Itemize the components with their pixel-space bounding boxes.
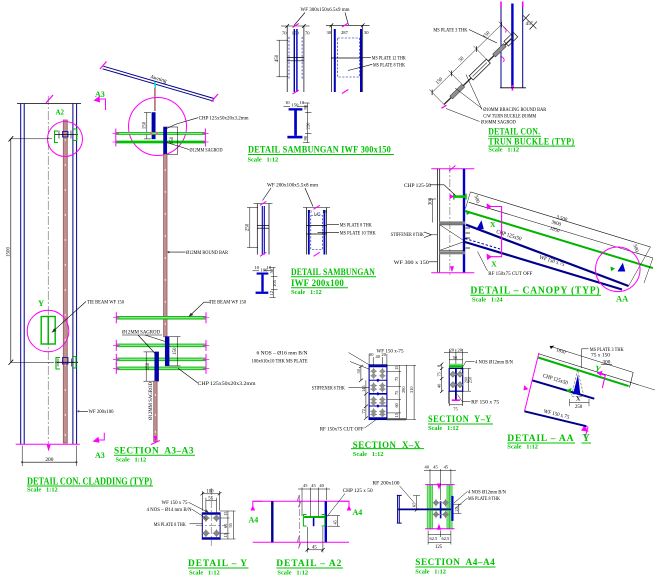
view1 splice lines bbox=[287, 56, 304, 58]
top dims bbox=[429, 469, 431, 484]
short dim 500 at left bbox=[466, 192, 471, 209]
leaders bbox=[294, 13, 305, 26]
bottom magenta beam line bbox=[253, 541, 349, 543]
svg-text:12: 12 bbox=[269, 290, 274, 295]
svg-text:150: 150 bbox=[173, 347, 178, 355]
svg-text:300: 300 bbox=[428, 197, 433, 205]
svg-text:SECTION A4–A4: SECTION A4–A4 bbox=[415, 557, 495, 568]
column left flange (double line) bbox=[20, 104, 22, 445]
GROUP D: detail sambungan IWF 200x100 bbox=[246, 182, 377, 297]
magenta frame bottom bbox=[525, 411, 589, 427]
left dim bracket bbox=[441, 364, 443, 392]
svg-text:Ø10MM BRACING ROUND BAR: Ø10MM BRACING ROUND BAR bbox=[483, 107, 546, 113]
svg-text:RF 150x75 CUT OFF: RF 150x75 CUT OFF bbox=[320, 427, 364, 433]
svg-text:DETAIL – CANOPY (TYP): DETAIL – CANOPY (TYP) bbox=[470, 285, 600, 296]
svg-text:Y: Y bbox=[583, 433, 591, 444]
marker A3 top arrow bbox=[98, 99, 106, 110]
leader chp bottom bbox=[178, 368, 198, 382]
svg-text:CHP 125 x 50: CHP 125 x 50 bbox=[343, 488, 373, 494]
tie beam channels (green) in circle bbox=[41, 317, 48, 345]
svg-text:90: 90 bbox=[303, 104, 308, 109]
CHP green member bbox=[454, 195, 467, 198]
svg-text:Scale 1:12: Scale 1:12 bbox=[428, 425, 459, 432]
purlin green line bbox=[465, 211, 653, 268]
dim extension lines bbox=[429, 22, 513, 105]
view2 outer lines bbox=[330, 25, 332, 92]
upper rod piece bbox=[493, 44, 507, 57]
svg-text:WF 300x150x6.5x9 mm: WF 300x150x6.5x9 mm bbox=[301, 7, 351, 13]
svg-text:CHP 125x50x20x3.2mm: CHP 125x50x20x3.2mm bbox=[198, 381, 257, 387]
svg-text:150: 150 bbox=[142, 121, 147, 129]
magenta break tick top bbox=[46, 95, 53, 103]
green arrowhead left bbox=[466, 210, 471, 215]
svg-text:STIFFENER 8 THK: STIFFENER 8 THK bbox=[312, 385, 345, 391]
svg-text:MS PLATE 8 THK: MS PLATE 8 THK bbox=[154, 522, 186, 528]
I-beam web horizontal bbox=[398, 508, 451, 510]
green arrowhead tip bbox=[610, 267, 615, 272]
view1 dim 250 bbox=[249, 208, 251, 248]
svg-text:Ø12MM ROUND BAR: Ø12MM ROUND BAR bbox=[186, 250, 228, 256]
beam web bbox=[455, 368, 457, 391]
svg-text:Scale 1:12: Scale 1:12 bbox=[116, 457, 147, 464]
dim 65 left bbox=[416, 496, 418, 511]
svg-text:WF 150 x 75: WF 150 x 75 bbox=[162, 500, 188, 506]
svg-text:Scale 1:12: Scale 1:12 bbox=[189, 569, 220, 576]
leader bbox=[190, 302, 211, 316]
svg-text:50: 50 bbox=[269, 268, 274, 273]
dim verticals bbox=[301, 488, 303, 517]
svg-text:72: 72 bbox=[361, 409, 366, 413]
I-beam bottom flange bbox=[256, 292, 269, 294]
svg-text:200: 200 bbox=[45, 457, 53, 463]
column bottom magenta line bbox=[16, 443, 80, 445]
GROUP I: detail AA bbox=[507, 346, 655, 451]
svg-text:62.5: 62.5 bbox=[442, 536, 450, 541]
svg-text:RF 150 x 75: RF 150 x 75 bbox=[471, 400, 499, 406]
bottom magenta line bbox=[431, 272, 474, 274]
dim 250 under gusset bbox=[570, 402, 590, 404]
svg-text:105: 105 bbox=[272, 279, 277, 287]
view1 magenta ticks bbox=[293, 24, 299, 28]
bolts bbox=[450, 372, 463, 388]
view1 splice lines bbox=[257, 225, 269, 227]
svg-text:TIE BEAM WF 150: TIE BEAM WF 150 bbox=[87, 300, 124, 306]
leader from plate labels bbox=[582, 349, 589, 368]
left column thick blue bbox=[271, 501, 273, 542]
column top edge line bbox=[17, 103, 81, 105]
dim 500 right end bbox=[629, 247, 653, 286]
right end extension bbox=[639, 385, 655, 390]
rafter bottom chord blue bbox=[465, 242, 622, 290]
rafter top chord blue bbox=[466, 225, 629, 286]
bottom dims bbox=[428, 534, 451, 536]
bottom stem bbox=[455, 391, 457, 399]
flange bands blue bbox=[369, 365, 387, 367]
right dims bbox=[270, 267, 276, 269]
svg-text:SECTION X–X: SECTION X–X bbox=[353, 440, 421, 451]
column right flange (double line) bbox=[72, 104, 74, 445]
leader CHP bbox=[167, 118, 198, 129]
turnbuckle body bbox=[469, 59, 490, 80]
svg-text:MS PLATE 3 THK: MS PLATE 3 THK bbox=[433, 27, 467, 33]
svg-text:X: X bbox=[490, 220, 496, 229]
circle Y bbox=[27, 310, 69, 352]
svg-text:125: 125 bbox=[435, 545, 443, 550]
svg-text:45°: 45° bbox=[526, 20, 533, 27]
dim ticks bbox=[429, 22, 504, 95]
tie beam girt line 3 bbox=[116, 358, 206, 360]
svg-text:DETAIL – Y: DETAIL – Y bbox=[188, 558, 248, 569]
svg-text:10: 10 bbox=[300, 100, 305, 105]
brace assembly (rotated group) bbox=[427, 19, 518, 108]
centerline bbox=[298, 496, 300, 548]
svg-text:A4: A4 bbox=[353, 508, 363, 517]
GROUP F: canopy detail bbox=[391, 165, 653, 304]
I-beam top flange bbox=[289, 108, 303, 110]
svg-text:100: 100 bbox=[206, 490, 214, 495]
bolt mark blue bbox=[63, 132, 69, 138]
view2 flange plates blue bbox=[334, 29, 336, 92]
cyan connector bbox=[154, 82, 157, 88]
green brackets bbox=[303, 515, 306, 527]
gusset plate at column bbox=[504, 32, 518, 46]
leader tie beam label bbox=[53, 302, 87, 332]
svg-text:Y: Y bbox=[38, 298, 44, 308]
break arcs magenta bbox=[504, 27, 507, 33]
sag rod T blue bbox=[313, 518, 315, 526]
leader round bar bbox=[168, 251, 186, 253]
plate top edge bbox=[538, 354, 639, 385]
gusset outline bbox=[572, 370, 585, 397]
GROUP K: detail A2 bbox=[249, 483, 373, 577]
view2 magenta ticks bbox=[342, 23, 348, 27]
bottom dim 45 bbox=[307, 549, 323, 551]
left marker hook bbox=[253, 501, 262, 506]
svg-text:Scale 1:12: Scale 1:12 bbox=[27, 487, 58, 494]
svg-text:DETAIL – A2: DETAIL – A2 bbox=[276, 558, 342, 569]
awning beam (double line) bbox=[103, 66, 214, 98]
svg-text:WF 200x100x5.5x8 mm: WF 200x100x5.5x8 mm bbox=[267, 182, 319, 188]
dim 100 bbox=[202, 493, 219, 495]
I-beam web bbox=[261, 275, 263, 292]
svg-text:C/W TURN BUCKLE Ø10MM: C/W TURN BUCKLE Ø10MM bbox=[483, 113, 536, 119]
svg-text:Ø16MM SAGROD: Ø16MM SAGROD bbox=[481, 120, 516, 126]
svg-text:90: 90 bbox=[303, 135, 308, 140]
round bar (sag rod) bbox=[63, 120, 67, 443]
green bracket left bbox=[55, 131, 59, 143]
girt line lower bbox=[116, 141, 206, 144]
top dim line bbox=[444, 352, 468, 354]
view2 top dim bbox=[303, 207, 330, 209]
svg-text:70: 70 bbox=[305, 31, 310, 36]
column centerline bbox=[47, 96, 49, 444]
tie beam girt line 2 bbox=[116, 344, 206, 346]
column lines bbox=[436, 169, 438, 273]
right end edge bbox=[630, 372, 634, 387]
circle A2 bbox=[48, 122, 83, 157]
brace rod line bbox=[444, 37, 513, 105]
column web thick bbox=[511, 4, 513, 89]
svg-text:WF 300 x 150: WF 300 x 150 bbox=[394, 260, 429, 266]
GROUP C: detail sambungan IWF 300x150 bbox=[248, 7, 406, 164]
column centerline bbox=[449, 165, 451, 276]
svg-text:150: 150 bbox=[146, 362, 151, 370]
awning end ticks magenta bbox=[100, 62, 107, 70]
leaders to channels bbox=[138, 335, 157, 355]
svg-text:DETAIL SAMBUNGAN IWF 300x150: DETAIL SAMBUNGAN IWF 300x150 bbox=[248, 145, 391, 156]
cut off leader bbox=[478, 252, 488, 272]
GROUP H: section Y-Y bbox=[428, 348, 513, 433]
bottom dim 75 bbox=[449, 404, 462, 406]
width dim 200 bbox=[22, 461, 76, 463]
svg-text:10: 10 bbox=[255, 265, 260, 270]
right dim 45 bbox=[327, 515, 340, 517]
view2 top dim line bbox=[326, 24, 370, 26]
view1 top dim bbox=[254, 203, 273, 205]
svg-text:CHP 125-50: CHP 125-50 bbox=[404, 183, 431, 189]
svg-text:75 x 150: 75 x 150 bbox=[591, 352, 610, 358]
top magenta line bbox=[431, 168, 474, 170]
right dims of I-beam bbox=[303, 102, 310, 104]
svg-text:30: 30 bbox=[364, 30, 369, 35]
magenta frame left bbox=[525, 353, 539, 411]
green bracket right bbox=[73, 129, 77, 141]
svg-text:MS PLATE 8 THK: MS PLATE 8 THK bbox=[468, 496, 500, 502]
left sag channel (blue) bbox=[155, 352, 159, 381]
girt flange pale horizontal bbox=[428, 508, 452, 511]
dim 55 bbox=[206, 499, 217, 501]
bottom magenta tick bbox=[151, 441, 160, 445]
svg-text:TIE BEAM WF 150: TIE BEAM WF 150 bbox=[209, 300, 246, 306]
plate rect bbox=[202, 513, 220, 539]
view2 magenta ticks bbox=[314, 205, 320, 209]
view2 dashed rect bbox=[311, 216, 323, 250]
marker A3 bottom arrow bbox=[97, 433, 104, 440]
green purlin line bbox=[538, 358, 628, 387]
top dim verticals bbox=[368, 354, 370, 365]
svg-text:4 NOS Ø12mm B/N: 4 NOS Ø12mm B/N bbox=[475, 359, 513, 365]
weld triangle at chord start bbox=[476, 220, 483, 229]
green bracket lower-left bbox=[56, 358, 60, 370]
svg-text:Scale 1:12: Scale 1:12 bbox=[507, 443, 538, 450]
view2 flange plates blue bbox=[308, 210, 310, 255]
rod stub below awning bbox=[154, 88, 156, 111]
top magenta beam line bbox=[253, 500, 349, 502]
svg-text:4 NOS Ø12mm B/N: 4 NOS Ø12mm B/N bbox=[468, 489, 506, 495]
bolts grid bbox=[371, 369, 385, 417]
I-beam bottom flange bbox=[287, 136, 302, 139]
svg-text:250: 250 bbox=[575, 405, 583, 410]
right dim lines bbox=[227, 511, 229, 539]
svg-text:MS PLATE 12 THK: MS PLATE 12 THK bbox=[372, 56, 406, 62]
svg-text:SECTION Y–Y: SECTION Y–Y bbox=[428, 414, 492, 425]
view1 outer lines bbox=[256, 204, 258, 255]
second hanger dim bbox=[177, 127, 179, 155]
view2 splice line bbox=[331, 57, 362, 59]
sagrod end piece bbox=[450, 84, 465, 99]
svg-text:Scale 1:24: Scale 1:24 bbox=[472, 297, 504, 304]
rafter hidden line dashed bbox=[465, 239, 500, 250]
svg-text:MS PLATE 8 THK: MS PLATE 8 THK bbox=[373, 62, 405, 68]
magenta bottom line bbox=[425, 528, 455, 530]
magenta base plate bbox=[452, 399, 460, 401]
svg-text:1500: 1500 bbox=[7, 247, 12, 258]
blue center marks bbox=[376, 379, 380, 408]
magenta tick at brace end bbox=[442, 105, 447, 108]
magenta arrow bottom bbox=[47, 445, 51, 452]
svg-text:250: 250 bbox=[468, 376, 473, 383]
I-beam top flange bbox=[257, 273, 269, 275]
svg-text:A3: A3 bbox=[95, 90, 105, 99]
GROUP J: detail Y bbox=[147, 488, 249, 576]
leaders from labels bbox=[349, 353, 373, 367]
dim line 2 bbox=[469, 202, 653, 258]
tie beam girt line 1 bbox=[116, 317, 206, 319]
svg-text:450: 450 bbox=[275, 54, 280, 62]
svg-text:Scale 1:12: Scale 1:12 bbox=[248, 157, 279, 164]
AA circle bbox=[596, 247, 641, 292]
svg-text:X: X bbox=[576, 397, 581, 403]
lower extension box bbox=[449, 391, 463, 403]
bolts bbox=[434, 500, 449, 517]
tie beam girt line 4 bbox=[116, 367, 206, 369]
right channel dim bracket bbox=[177, 337, 179, 366]
GROUP E: turn buckle detail bbox=[427, 2, 575, 154]
blue chord 2 bbox=[525, 411, 587, 426]
svg-text:Ø12MM SAGROD: Ø12MM SAGROD bbox=[190, 148, 223, 154]
svg-text:70: 70 bbox=[282, 31, 287, 36]
circle top connection bbox=[129, 98, 187, 156]
gusset triangles bbox=[440, 225, 465, 241]
gusset blue fill bbox=[573, 375, 580, 395]
svg-text:X: X bbox=[491, 260, 497, 269]
GROUP G: section X-X bbox=[252, 350, 425, 458]
bolt mark lower bbox=[63, 358, 69, 365]
svg-text:A3: A3 bbox=[95, 451, 105, 460]
weld triangle at tip bbox=[618, 263, 626, 272]
svg-text:A4: A4 bbox=[249, 516, 259, 525]
right marker hook bbox=[340, 501, 349, 506]
column web thick blue bbox=[463, 169, 465, 273]
view1 magenta ticks bbox=[260, 201, 266, 205]
right column thick blue bbox=[325, 501, 327, 542]
svg-text:150: 150 bbox=[292, 31, 300, 36]
bottom cut-off thick line bbox=[387, 418, 406, 420]
view2 outer lines bbox=[306, 208, 308, 255]
girt end ticks bbox=[116, 129, 206, 147]
beam box outline bbox=[449, 368, 463, 391]
dim 300 bbox=[432, 199, 434, 223]
I-beam web bbox=[294, 111, 297, 136]
svg-text:290: 290 bbox=[401, 386, 406, 393]
left dim lines bbox=[360, 366, 362, 380]
svg-text:MS PLATE 8 THK: MS PLATE 8 THK bbox=[340, 222, 372, 228]
leaders bbox=[263, 188, 272, 201]
connection line in circle bbox=[54, 134, 78, 136]
bolt dashes on column bbox=[466, 228, 471, 248]
plate rect bbox=[369, 365, 387, 420]
svg-text:45: 45 bbox=[312, 546, 317, 551]
dim line 1 (3500) bbox=[470, 192, 650, 247]
leader WF 200x100 bbox=[78, 410, 89, 412]
svg-text:Scale 1:12: Scale 1:12 bbox=[277, 569, 308, 576]
green arrow small bbox=[566, 388, 572, 394]
view2 dashed plate rect bbox=[338, 38, 360, 77]
centerlines bbox=[210, 488, 212, 546]
view1 web blue thick bbox=[293, 29, 295, 92]
svg-text:4 NOS – Ø14 mm B/N: 4 NOS – Ø14 mm B/N bbox=[147, 507, 192, 513]
dim line bbox=[432, 25, 501, 93]
second hanger channel (blue) bbox=[164, 127, 167, 155]
view1 450 dim bbox=[278, 40, 280, 77]
svg-text:62.5: 62.5 bbox=[430, 536, 438, 541]
svg-text:6 NOS – Ø16 mm B/N: 6 NOS – Ø16 mm B/N bbox=[257, 350, 308, 356]
svg-text:CHP 125x50x20x3.2mm: CHP 125x50x20x3.2mm bbox=[199, 116, 250, 122]
I-beam flange vertical bbox=[397, 495, 399, 523]
girt green line bbox=[304, 516, 325, 518]
45 degree note bbox=[523, 14, 537, 30]
open arrow bbox=[424, 232, 432, 238]
svg-text:287: 287 bbox=[341, 30, 349, 35]
column base line bbox=[500, 87, 526, 89]
gray beam stub upper bbox=[440, 221, 465, 224]
svg-text:150: 150 bbox=[170, 136, 175, 144]
svg-text:WF 200x100: WF 200x100 bbox=[89, 409, 114, 415]
section X bracket magenta bbox=[491, 207, 502, 257]
svg-text:30: 30 bbox=[327, 30, 332, 35]
svg-text:310: 310 bbox=[409, 386, 414, 393]
leaders bbox=[455, 75, 482, 110]
svg-text:Ø12MM SAGROD: Ø12MM SAGROD bbox=[148, 382, 154, 420]
magenta arrow at chp bbox=[450, 194, 455, 199]
view1 web lines bbox=[261, 206, 263, 255]
svg-text:250: 250 bbox=[246, 223, 251, 231]
green bracket lower-right bbox=[72, 357, 76, 369]
view1 top dim line bbox=[281, 25, 310, 27]
lower connection line bbox=[55, 361, 78, 363]
CHP hanger channel (blue) bbox=[152, 113, 155, 139]
svg-text:RF 150x75 CUT OFF: RF 150x75 CUT OFF bbox=[488, 271, 532, 277]
bolts bbox=[203, 515, 219, 536]
GROUP L: section A4-A4 bbox=[373, 464, 507, 575]
svg-text:Scale 1:12: Scale 1:12 bbox=[353, 451, 384, 458]
plate thick blue bbox=[451, 496, 453, 521]
svg-text:100x610x10 THK MS PLATE: 100x610x10 THK MS PLATE bbox=[252, 358, 308, 364]
right sag channel (blue) bbox=[165, 337, 169, 366]
right dim lines bbox=[398, 365, 400, 420]
svg-text:10: 10 bbox=[285, 100, 290, 105]
column flange lines bbox=[500, 4, 502, 89]
svg-text:Scale 1:12: Scale 1:12 bbox=[488, 147, 519, 154]
svg-text:AA: AA bbox=[616, 294, 629, 304]
dim 25 right bbox=[458, 504, 460, 513]
svg-text:STIFFENER 8 THK: STIFFENER 8 THK bbox=[391, 232, 424, 238]
GROUP B: center column / section A3-A3 bbox=[94, 62, 257, 464]
hanger dim 150 bbox=[146, 113, 148, 139]
GROUP A: left column detail bbox=[7, 95, 154, 494]
sag rod lower run bbox=[154, 381, 157, 442]
bolt line blue bbox=[440, 501, 442, 518]
right dim bracket bbox=[467, 368, 469, 391]
svg-text:A2: A2 bbox=[56, 109, 65, 117]
svg-text:Scale 1:12: Scale 1:12 bbox=[415, 568, 446, 575]
overall height dim line bbox=[10, 139, 12, 362]
left channel dim bracket bbox=[145, 352, 147, 381]
break marks magenta bbox=[298, 495, 301, 508]
svg-text:220: 220 bbox=[306, 122, 311, 130]
rod nut marks bbox=[150, 132, 153, 135]
leader sagrod bbox=[167, 143, 189, 150]
